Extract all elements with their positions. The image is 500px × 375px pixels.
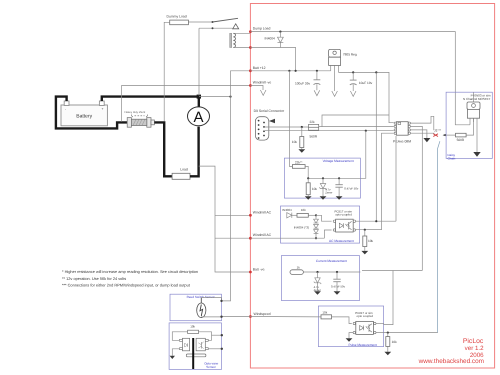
slotted collar [186,354,206,357]
wire: windmill AC 1 [215,214,250,216]
svg-text:560R: 560R [457,138,465,142]
node: +12 riser junction [229,96,231,98]
svg-text:Current Measurement: Current Measurement [316,259,347,263]
wire: phototransistor emitter out [208,348,222,350]
subcircuit box: current measurement [281,256,359,301]
wire: shunt right heavy lead down to load [154,122,172,176]
wire: pin4 right to J1 [411,132,435,134]
op IC U1 PicAxe 08M [393,122,411,144]
D9 serial connector J2 [254,109,285,140]
svg-text:Dummy Load: Dummy Load [167,14,187,18]
svg-text:22k: 22k [310,120,316,124]
svg-text:IN4004: IN4004 [265,37,276,41]
wire: divider node rail [305,166,360,178]
svg-text:Windspeed: Windspeed [254,312,271,316]
wire: D9 TX to serial resistor [265,126,309,128]
svg-text:10uF 10v: 10uF 10v [359,81,373,85]
vane (black bar) [192,338,194,369]
svg-text:Battery: Battery [76,114,92,120]
svg-text:10k: 10k [292,140,298,144]
wire: dump load net to MOSFET drain [250,32,470,125]
subcircuit box: pulse measurement [318,306,383,347]
capacitor C4 0.47uF 50v [331,272,346,291]
wire: pin4 left to AC measurement output [367,133,394,230]
svg-text:10k: 10k [312,187,318,191]
svg-text:100uF 35v: 100uF 35v [295,81,310,85]
ground (MOSFET source) [473,152,480,157]
svg-text:IN4004 (*3): IN4004 (*3) [294,226,309,230]
wire: resistor left to LED anode [172,332,187,341]
wire: gate resistor to MOSFET [466,118,473,135]
wire: batt+12 / reed riser [222,71,251,301]
ground (7805) [332,91,338,96]
resistor R12 10k (pulse emitter) [386,333,397,352]
ground (PicAxe) [423,138,430,142]
wire: reed top to +12 riser [201,298,221,301]
resistor R3 22k / 560R pair [309,120,319,139]
svg-text:Windmill AC: Windmill AC [253,210,272,214]
wire: contact lower terminal down to +12 rail [198,28,200,95]
wire: serial resistor right to PicAxe pin2 [319,126,394,128]
svg-text:10k: 10k [368,239,374,243]
svg-text:10k: 10k [322,310,327,314]
wire: opto collector out [356,220,396,222]
wire: AC2 inside box [250,237,324,239]
resistor Load [172,168,190,180]
wire: battery negative heavy lead (left, around bottom to shunt) [56,97,127,129]
wire: opto LED cathode to AC2 [324,230,331,238]
wire: windmill -ve sense from shunt left [122,86,251,122]
svg-text:** 12v operation. Use 56k fo: ** 12v operation. Use 56k for 24 volts [62,276,126,281]
svg-text:Windmill -ve: Windmill -ve [253,81,272,85]
wire: pin1 right jumper up [411,116,434,130]
opto U4 PC817 (pulse) [353,311,376,335]
subcircuit box: voltage measurement [284,158,360,198]
svg-text:J1***: J1*** [434,129,442,133]
ammeter A1 [188,107,210,126]
ground (C2) [350,91,356,96]
svg-text:10k: 10k [392,340,398,344]
resistor Dummy Load [167,14,189,24]
svg-text:IN4004: IN4004 [282,208,292,212]
svg-text:Batt -ve: Batt -ve [253,267,265,271]
capacitor C3 0.47uF 50v [335,178,358,196]
capacitor C1 100uF 35v [295,71,320,91]
wire: +5 pullup down to AC opto collector [375,72,377,221]
svg-text:Zener: Zener [325,191,332,195]
wire: dummy load left down to shunt right [164,22,170,121]
relay contact SW1 [188,18,238,29]
wire: pin2 right down [411,126,423,270]
wire: windmill AC 2 [215,237,250,239]
transistor Q1 N-channel MOSFET (TO-220) [467,92,480,152]
resistor R5 22k** [292,160,305,168]
wire: programming link upper [322,115,389,127]
board terminal nodes (red) [249,30,252,318]
ground (R8) [361,251,368,255]
wire: voltage measurement output riser [360,131,365,179]
wire: pulse opto emitter out to daisy link [376,332,438,334]
wire: Batt +12 rail inside board [250,70,330,72]
wire: batt+12 sense drop to voltage divider [289,71,292,167]
reed switch S2 [197,298,206,318]
ground (D5) [314,291,321,295]
wire: battery positive heavy lead (top rail to ammeter junction) [102,97,199,101]
svg-text:560R: 560R [310,135,318,139]
svg-text:1k: 1k [297,265,301,269]
wire: pulse opto collector out [376,323,384,325]
resistor R10 10k (opto-vane) [188,325,199,334]
svg-text:Reed Switch Sensor: Reed Switch Sensor [187,295,215,299]
voltage regulator U2 7805 [329,49,357,91]
PicLoc board outline (red border) [250,4,494,369]
arrow marker at D9 shell [269,119,275,123]
svg-text:ver 1.2: ver 1.2 [465,345,484,352]
wire: resistor right to output / collector [199,332,212,341]
junction on +12 rail at ammeter [197,95,201,99]
resistor R2 10k (serial pulldown) [292,127,304,149]
opto U3 PC817 (AC) [333,209,355,232]
svg-text:0.47uF 50v: 0.47uF 50v [344,186,359,190]
svg-text:AC Measurement: AC Measurement [329,239,354,243]
ground (windmill -ve) [260,90,266,95]
resistor R7 10k [292,208,316,217]
ground (C1) [314,90,320,95]
svg-text:7805 Reg: 7805 Reg [343,53,357,57]
svg-text:Windmill AC: Windmill AC [253,233,272,237]
svg-text:Heavy duty shunt: Heavy duty shunt [125,111,146,114]
svg-text:D9 Serial Connector: D9 Serial Connector [254,109,285,113]
opto-vane phototransistor package [196,338,208,351]
relay coil K1 [230,33,251,47]
svg-text:www.thebackshed.com: www.thebackshed.com [418,358,484,365]
svg-text:Dump Load: Dump Load [253,26,271,30]
wire: reed bottom to windspeed [201,316,250,318]
node on dump load wire at flyback diode [279,31,281,33]
svg-text:22k**: 22k** [295,160,303,164]
subcircuit box: opto-vane sensor [169,323,221,370]
wire: current sense rail [303,271,360,273]
svg-text:Sensor: Sensor [206,365,216,369]
ground (pulse LED) [346,338,353,342]
svg-text:* Higher resistance will in: * Higher resistance will increase amp re… [62,269,198,274]
battery B1 [61,101,107,126]
ground (opto-vane) [170,356,175,359]
wire: load to ammeter heavy lead [190,127,199,177]
wire: pulse opto LED cathode to ground [349,333,353,339]
wire: +5V rail [339,72,394,122]
svg-text:Voltage Measurement: Voltage Measurement [323,159,354,163]
svg-text:-: - [65,107,66,111]
svg-text:0.47uF 50v: 0.47uF 50v [331,284,346,288]
resistor R11 10k (pulse input) [321,310,332,319]
svg-text:A: A [193,109,203,126]
resistor R4 560R (gate) [446,133,466,142]
svg-text:Chain: Chain [448,157,456,161]
ground (R6) [305,196,312,200]
wire: ammeter top to +12 rail [198,97,200,107]
ground (D2) [320,196,327,200]
subcircuit box: reed switch sensor [170,294,222,321]
ground (C3) [336,196,343,200]
svg-text:Pulse Measurement: Pulse Measurement [349,343,377,347]
wire: pin3 right to ground [411,130,427,138]
ground (R12) [384,352,391,356]
wire: diode bottom to coil terminal and +12 riser [250,48,295,71]
wire: node to opto LED anode [316,215,332,221]
svg-text:opto-coupled: opto-coupled [335,212,352,216]
diode D1 1N4004 (relay flyback) [265,32,284,48]
title text (red) [418,338,485,365]
wire: LED cathode to ground [172,349,179,356]
wire: current/pulse link [362,270,422,272]
relay actuator arrow [233,24,239,29]
wire: batt -ve sense tap from load/ammeter node [199,166,251,272]
diode D5 4.7v zener [314,272,322,292]
diode D3 IN4004 [282,208,292,218]
svg-text:opto coupled: opto coupled [357,314,374,318]
capacitor C2 10uF 10v [350,72,373,91]
ground (C4) [334,291,341,295]
opto-vane LED package [180,338,190,351]
svg-text:10k: 10k [301,208,306,212]
wire: windspeed into opto LED [250,316,321,318]
wire: +12 rail thin extension to riser [199,96,231,98]
wire: windmill -ve to ground [250,86,263,91]
diode chain D4 IN4004 (*3) [294,215,319,238]
resistor R8 10k (AC emitter load) [363,230,374,251]
node J1 (jumper, marked) [433,129,446,137]
svg-text:N Channel MOSFET: N Channel MOSFET [463,97,491,101]
resistor R9 1k (current sense) [290,265,303,274]
svg-text:10k: 10k [190,325,195,329]
svg-text:*** Connections for either 2n: *** Connections for either 2nd RPM/Winds… [62,282,191,287]
resistor R6 10k [306,178,317,196]
subcircuit box: AC measurement [281,206,360,243]
wire (daisy chain link, teal) [438,141,440,332]
svg-text:Load: Load [180,168,188,172]
board terminal labels [253,26,272,316]
shunt R-shunt (heavy duty shunt) [125,111,155,127]
svg-text:Batt +12: Batt +12 [253,66,266,70]
subcircuit box: dump load driver [446,92,492,158]
diode D2 4.7v zener [319,178,332,196]
wire: AC opto collector run up to chip [395,136,397,221]
svg-text:+: + [102,107,104,111]
wire: opto emitter out [356,229,382,231]
wire: D9 RX to PicAxe pin3 [265,130,394,132]
ground (serial pulldown) [298,149,305,153]
